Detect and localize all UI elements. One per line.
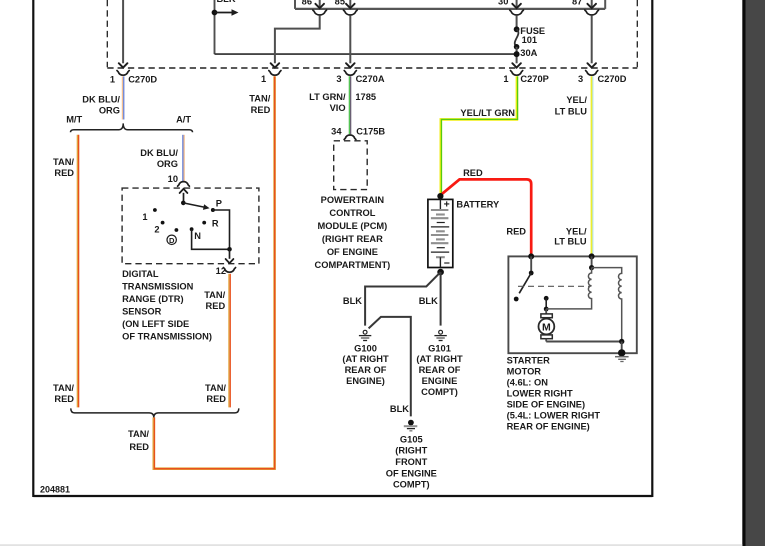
svg-text:DK BLU/: DK BLU/ [140, 148, 178, 158]
svg-text:204881: 204881 [40, 485, 70, 495]
svg-text:RED: RED [506, 226, 526, 236]
svg-text:1785: 1785 [355, 92, 376, 102]
svg-text:1: 1 [261, 74, 266, 84]
svg-text:COMPARTMENT): COMPARTMENT) [315, 260, 391, 270]
wire DK BLU/ORG (A/T branch to DTR pin 10) [182, 135, 184, 181]
wire, horizontal bus to fuse bottom [215, 53, 517, 55]
svg-text:OF ENGINE: OF ENGINE [386, 468, 437, 478]
svg-text:G105: G105 [400, 434, 423, 444]
svg-text:YEL/: YEL/ [566, 95, 587, 105]
svg-text:TAN/: TAN/ [249, 94, 270, 104]
svg-text:3: 3 [336, 74, 341, 84]
svg-text:ENGINE): ENGINE) [346, 376, 385, 386]
solenoid hold-in winding [592, 268, 622, 342]
svg-text:YEL/: YEL/ [566, 226, 587, 236]
svg-text:ORG: ORG [157, 159, 178, 169]
connector C270D pin 3 [586, 71, 598, 76]
svg-text:(4.6L: ON: (4.6L: ON [507, 378, 549, 388]
wire YEL/LT BLU (C270D pin 3 to starter solenoid) [591, 76, 593, 255]
svg-text:3: 3 [578, 74, 583, 84]
svg-text:BLK: BLK [419, 296, 438, 306]
svg-text:ENGINE: ENGINE [422, 376, 458, 386]
wire from relay pin 87 to C270D pin 3 [591, 15, 593, 63]
svg-text:+: + [444, 198, 450, 210]
wire from relay area to C270D pin 1 (left) [122, 0, 124, 63]
DTR contact 1 [153, 208, 157, 212]
svg-text:RED: RED [206, 301, 226, 311]
wire TAN/RED (DTR pin 12 down) [228, 274, 230, 408]
wire LT GRN/VIO (C270A pin 3 to PCM pin 34) [348, 76, 350, 134]
svg-text:86: 86 [302, 0, 312, 7]
solenoid contact bridge [544, 296, 549, 301]
svg-text:DK BLU/: DK BLU/ [82, 95, 120, 105]
wire RED (battery + to starter solenoid) [441, 179, 531, 254]
DTR contact P [211, 208, 215, 212]
wire from relay pin 85 to C270A pin 3 [349, 15, 351, 63]
svg-text:BLK: BLK [390, 404, 409, 414]
svg-text:2: 2 [154, 224, 159, 234]
DTR contact D [175, 228, 179, 232]
DTR sensor (dashed box) [122, 188, 259, 264]
svg-text:VIO: VIO [330, 103, 346, 113]
svg-text:BATTERY: BATTERY [456, 199, 500, 209]
svg-text:RED: RED [463, 168, 483, 178]
svg-text:1: 1 [503, 74, 508, 84]
svg-text:10: 10 [168, 174, 178, 184]
svg-text:COMPT): COMPT) [421, 387, 458, 397]
svg-text:RED: RED [206, 394, 226, 404]
svg-text:TAN/: TAN/ [53, 157, 74, 167]
connector C270P pin 1 [511, 71, 523, 76]
wire BLK (battery - to G101) [440, 272, 442, 326]
svg-text:G100: G100 [354, 343, 377, 353]
svg-text:TAN/: TAN/ [53, 383, 74, 393]
svg-text:D: D [169, 236, 175, 245]
starter motor housing (box) [508, 256, 636, 353]
svg-text:LT GRN/: LT GRN/ [309, 92, 346, 102]
svg-text:DIGITAL: DIGITAL [122, 269, 159, 279]
svg-text:1: 1 [110, 74, 115, 84]
wire DK BLU/ORG (C270D pin 1 to M/T / A/T split) [121, 76, 123, 119]
svg-text:(AT RIGHT: (AT RIGHT [416, 354, 463, 364]
harness boundary (dashed) [106, 0, 108, 67]
wire TAN/RED (merged run up to connector pin 1) [154, 76, 275, 469]
wire TAN/RED (M/T branch) [76, 135, 78, 408]
DTR switch arm to P [183, 203, 204, 207]
ground G101 [439, 330, 443, 334]
svg-text:COMPT): COMPT) [393, 480, 430, 490]
svg-text:C270D: C270D [128, 74, 157, 84]
svg-text:C270P: C270P [520, 74, 548, 84]
svg-text:REAR OF: REAR OF [345, 365, 387, 375]
fuse 101 30A [516, 15, 518, 28]
DTR contact R [202, 221, 206, 225]
DTR internal wiring to pin 12 [213, 210, 230, 249]
svg-text:TAN/: TAN/ [204, 290, 225, 300]
svg-text:(5.4L: LOWER RIGHT: (5.4L: LOWER RIGHT [507, 411, 601, 421]
svg-text:RED: RED [129, 442, 149, 452]
svg-text:(RIGHT: (RIGHT [395, 446, 427, 456]
svg-text:(AT RIGHT: (AT RIGHT [342, 354, 389, 364]
svg-text:M/T: M/T [66, 114, 82, 124]
svg-text:30A: 30A [520, 48, 537, 58]
svg-text:CONTROL: CONTROL [329, 208, 375, 218]
svg-text:SENSOR: SENSOR [122, 307, 162, 317]
svg-text:BLK: BLK [343, 296, 362, 306]
svg-text:C175B: C175B [356, 126, 385, 136]
svg-text:REAR OF ENGINE): REAR OF ENGINE) [507, 422, 590, 432]
svg-text:SIDE OF ENGINE): SIDE OF ENGINE) [507, 400, 586, 410]
connector pin 1 (TAN/RED feed) [269, 71, 281, 76]
svg-text:LT BLU: LT BLU [555, 107, 588, 117]
svg-text:(ON LEFT SIDE: (ON LEFT SIDE [122, 319, 189, 329]
PCM (dashed box) [334, 141, 368, 190]
solenoid pull-in winding [589, 253, 595, 259]
battery [437, 193, 443, 199]
svg-text:34: 34 [331, 126, 342, 136]
connector C270D pin 1 [117, 71, 129, 76]
relay K1 (partial, bottom of box) [295, 8, 605, 10]
svg-text:85: 85 [335, 0, 345, 7]
DTR switch pivot and up arrow [183, 193, 185, 203]
svg-text:TAN/: TAN/ [128, 429, 149, 439]
DTR contact 2 [161, 221, 165, 225]
ground (starter case) [615, 356, 629, 358]
svg-text:REAR OF: REAR OF [419, 365, 461, 375]
svg-text:LOWER RIGHT: LOWER RIGHT [507, 389, 573, 399]
svg-text:87: 87 [572, 0, 582, 6]
wire YEL/LT GRN (C270P pin 1 to battery +) [441, 76, 517, 193]
svg-text:C270A: C270A [356, 74, 385, 84]
svg-text:RANGE (DTR): RANGE (DTR) [122, 294, 183, 304]
ground G105 [408, 420, 414, 426]
brace merge (M/T + DTR pin 12) [71, 408, 239, 417]
ground G100 [363, 330, 367, 334]
svg-text:G101: G101 [428, 343, 451, 353]
motor M [545, 309, 547, 314]
svg-text:30: 30 [498, 0, 508, 7]
svg-text:M: M [542, 321, 551, 333]
svg-text:STARTER: STARTER [507, 356, 550, 366]
brace split M/T | A/T [71, 123, 193, 132]
svg-text:1: 1 [142, 212, 147, 222]
svg-text:(RIGHT REAR: (RIGHT REAR [322, 234, 383, 244]
wire from relay pin 86 to C270D pin 1 [275, 15, 320, 63]
svg-text:LT BLU: LT BLU [554, 237, 587, 247]
svg-text:−: − [444, 257, 450, 269]
svg-text:OF TRANSMISSION): OF TRANSMISSION) [122, 332, 212, 342]
starter internal ground run [619, 339, 624, 344]
svg-text:FRONT: FRONT [395, 457, 427, 467]
solenoid switch (from RED feed) [528, 253, 534, 259]
svg-text:TAN/: TAN/ [205, 383, 226, 393]
svg-text:N: N [194, 231, 201, 241]
svg-text:MODULE (PCM): MODULE (PCM) [318, 221, 388, 231]
svg-text:P: P [216, 198, 222, 208]
svg-text:RED: RED [54, 168, 74, 178]
DTR contact N [190, 227, 194, 231]
svg-text:101: 101 [522, 35, 538, 45]
svg-text:BLK: BLK [216, 0, 235, 4]
connector C270A pin 3 [344, 71, 356, 76]
svg-text:A/T: A/T [176, 114, 191, 124]
svg-text:RED: RED [251, 105, 271, 115]
svg-text:RED: RED [54, 394, 74, 404]
svg-text:YEL/LT GRN: YEL/LT GRN [460, 108, 515, 118]
svg-text:MOTOR: MOTOR [507, 367, 542, 377]
svg-text:TRANSMISSION: TRANSMISSION [122, 282, 194, 292]
mechanical link (dashed) [518, 285, 590, 287]
wire BLK (battery - to G100) [365, 272, 441, 326]
svg-text:ORG: ORG [99, 105, 120, 115]
svg-text:OF ENGINE: OF ENGINE [327, 247, 378, 257]
svg-text:POWERTRAIN: POWERTRAIN [321, 195, 385, 205]
wire BLK (G100 to G105) [369, 317, 411, 417]
svg-text:C270D: C270D [598, 74, 627, 84]
svg-text:R: R [212, 219, 219, 229]
